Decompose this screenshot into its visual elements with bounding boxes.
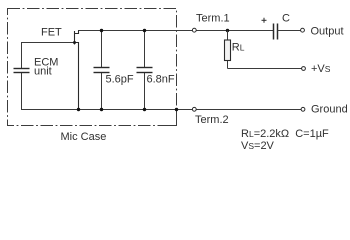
svg-text:RL=2.2kΩ C=1µF: RL=2.2kΩ C=1µF bbox=[241, 128, 329, 140]
svg-text:VS=2V: VS=2V bbox=[241, 140, 275, 152]
svg-text:unit: unit bbox=[34, 66, 52, 78]
node: RL top junction bbox=[226, 29, 229, 32]
capacitor C coupling (plates) bbox=[274, 24, 278, 40]
svg-text:6.8nF: 6.8nF bbox=[147, 74, 175, 86]
svg-text:Term.2: Term.2 bbox=[195, 114, 229, 126]
polarity + sign for C bbox=[262, 18, 267, 23]
node: 6.8nF bottom junction bbox=[143, 108, 146, 111]
wire: RL to +Vs bbox=[228, 68, 302, 70]
svg-text:Mic Case: Mic Case bbox=[61, 131, 107, 143]
node Term.1 (open terminal circle) bbox=[192, 28, 196, 32]
node: 6.8nF top junction bbox=[143, 29, 146, 32]
wire: gate wire from ECM element to FET bbox=[22, 43, 75, 69]
resistor RL (leads) bbox=[227, 31, 229, 41]
svg-text:Ground: Ground bbox=[311, 104, 348, 116]
svg-text:C: C bbox=[282, 13, 290, 25]
capacitor ECM electret element bbox=[14, 69, 30, 73]
Mic Case enclosure border (dash-dot) bbox=[8, 9, 177, 126]
node: FET gate junction blob bbox=[73, 41, 76, 44]
transistor FET (bar, drain, source) bbox=[75, 31, 79, 110]
node: case ground junction bbox=[175, 108, 178, 111]
node Ground terminal circle bbox=[301, 107, 305, 111]
capacitor C1 5.6pF (plates) bbox=[94, 68, 110, 73]
svg-text:5.6pF: 5.6pF bbox=[106, 74, 134, 86]
resistor RL (body) bbox=[225, 40, 231, 61]
capacitor C2 6.8nF (leads) bbox=[144, 31, 146, 68]
svg-text:FET: FET bbox=[41, 27, 62, 39]
Mic Case border corner solid segment (right-bottom) bbox=[167, 110, 177, 126]
wire: C to Output bbox=[278, 30, 301, 32]
node: 5.6pF bottom junction bbox=[100, 108, 103, 111]
node Term.2 (open terminal circle) bbox=[192, 107, 196, 111]
wire: top rail (FET drain to coupling cap) bbox=[78, 30, 274, 32]
wire: ECM element lower lead bbox=[21, 73, 23, 110]
svg-text:RL: RL bbox=[232, 42, 245, 54]
svg-text:Term.1: Term.1 bbox=[196, 13, 230, 25]
capacitor C1 5.6pF (leads) bbox=[101, 31, 103, 68]
node: 5.6pF top junction bbox=[100, 29, 103, 32]
capacitor C2 6.8nF (plates) bbox=[137, 68, 153, 73]
svg-text:+VS: +VS bbox=[311, 63, 331, 75]
node: ECM source corner junction bbox=[77, 108, 80, 111]
svg-text:Output: Output bbox=[311, 26, 344, 38]
node Output terminal circle bbox=[301, 28, 305, 32]
wire: ground rail bbox=[21, 109, 302, 111]
node +Vs terminal circle bbox=[302, 67, 306, 71]
